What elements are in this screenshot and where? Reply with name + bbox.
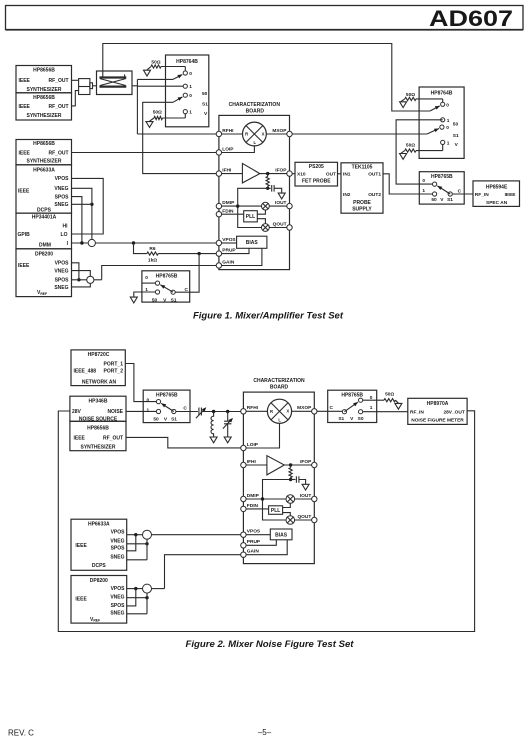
svg-text:R: R [270,409,273,414]
node VNEG-SNEG junction [90,203,93,206]
svg-text:LOIP: LOIP [247,442,259,448]
svg-text:HP8765B: HP8765B [156,273,178,279]
common fig2 right [330,405,347,414]
combiner transformer winding top [99,74,126,77]
wire to IOUT fig2 [295,498,312,500]
svg-text:50Ω: 50Ω [153,110,162,116]
svg-text:50Ω: 50Ω [151,59,160,65]
instrument DP8200 voltage reference box 1 [16,249,72,297]
svg-text:Figure 2. Mixer Noise Figure: Figure 2. Mixer Noise Figure Test Set [186,639,355,649]
wire MXOP line to switch [292,133,427,135]
svg-text:V: V [455,142,459,148]
contact 1 pole B [183,84,192,90]
svg-text:MXOP: MXOP [297,405,312,411]
svg-text:BIAS: BIAS [275,532,288,538]
svg-text:0: 0 [446,125,449,131]
wire to IOUT [269,205,287,207]
svg-text:IEEE: IEEE [18,263,30,269]
svg-text:RFHI: RFHI [247,405,259,411]
svg-text:IEEE_488: IEEE_488 [74,368,97,374]
switch HP8765B figure1 box [142,271,190,302]
node IFOP junction fig2 [289,463,292,466]
wire DP8200 VNEG [127,597,147,599]
contact 1 fig2 left [147,407,161,413]
instrument HP8594E spectrum analyzer box [473,181,520,207]
wire FDIN to PLL [222,213,244,215]
contact 1 bottom right [441,140,450,146]
svg-text:FDIN: FDIN [222,208,234,214]
svg-text:50: 50 [431,197,437,203]
labels 50 S1 V right switch [453,122,459,149]
svg-text:HP8765B: HP8765B [156,393,178,399]
contact 0 fig2 right [359,395,373,402]
wire DP8200 VPOS to GAIN [127,588,165,590]
ground for top-left 50Ω [144,70,151,76]
svg-text:X10: X10 [297,172,306,178]
svg-text:0: 0 [145,275,148,281]
instrument HP6633A DCPS box [16,165,72,214]
wire amp out to IFOP fig2 [284,464,311,466]
svg-text:HP6633A: HP6633A [88,521,110,527]
svg-text:1: 1 [422,188,425,194]
resistor 50Ω bottom left [150,110,186,122]
mixer I demodulator fig2 [286,495,295,504]
svg-text:–5–: –5– [258,728,272,737]
labels 50 V S1 spec switch [431,197,453,203]
svg-text:SUPPLY: SUPPLY [352,206,372,212]
wire synth2 RF_OUT to combiner input [72,91,79,106]
board2 left pins [241,405,261,557]
mixer U2 [267,399,291,423]
svg-text:IN1: IN1 [343,172,351,178]
meter circle on SPOS line [87,276,94,283]
instrument HP8656B synthesizer 2 box [16,93,72,120]
arm spec switch [437,186,450,194]
svg-text:1: 1 [189,84,192,90]
svg-text:50: 50 [453,122,459,128]
wire GAIN riser fig2 [165,555,241,589]
svg-text:VPOS: VPOS [111,530,126,536]
svg-text:C: C [185,287,189,293]
wire contact1 to noise figure meter [363,411,408,413]
svg-text:1: 1 [447,140,450,146]
node below resistor [266,187,269,190]
footer revision [8,729,34,738]
switch HP8764B left box [166,55,209,127]
svg-text:HP6633A: HP6633A [33,168,55,174]
wire NOISE to contact1 [126,410,156,412]
wire synth3 RF_OUT to LOIP [72,152,219,154]
svg-text:X: X [286,409,289,414]
caption figure 2 [186,639,355,649]
wire amp out to IFOP [260,173,287,175]
svg-text:HP8764B: HP8764B [176,59,198,65]
wire DMIP line fig2 [246,498,286,500]
svg-text:VREF: VREF [90,617,100,623]
svg-text:VPOS: VPOS [222,237,236,243]
svg-text:DMIP: DMIP [222,200,235,206]
footer page number [258,728,272,737]
instrument DP8200 box fig2 [71,576,127,624]
variable capacitor series [196,407,206,418]
svg-text:SPEC AN: SPEC AN [486,200,508,206]
svg-text:BIAS: BIAS [246,240,259,246]
svg-text:PORT_1: PORT_1 [104,361,124,367]
svg-text:HP8656B: HP8656B [33,141,55,147]
wire DP8200 SNEG [127,613,147,615]
svg-text:FET PROBE: FET PROBE [302,178,331,184]
svg-text:VNEG: VNEG [110,595,124,601]
wire RFHI line [137,133,219,135]
ground for bottom-left 50Ω [146,122,153,128]
wire R6 to PRUP [158,253,219,255]
wire PORT_1 to switch contact0 [125,364,156,402]
wire DCPS vertical to meter [146,539,148,560]
svg-text:PORT_2: PORT_2 [104,368,124,374]
common spec switch [448,189,462,197]
wire plug to combiner [93,85,97,87]
svg-text:0: 0 [189,93,192,99]
svg-text:S1: S1 [447,197,453,203]
wire DCPS SNEG [127,559,147,561]
svg-text:IEEE: IEEE [74,435,86,441]
wire DCPS SPOS up [127,535,136,551]
caption figure 1 [193,311,344,321]
svg-text:NOISE: NOISE [107,409,123,415]
wire mixer to MXOP fig2 [292,410,312,412]
svg-text:SYNTHESIZER: SYNTHESIZER [26,158,61,164]
instrument HP8720C network analyzer box [71,350,125,386]
node VPOS-SPOS fig2 [134,533,137,536]
wire SPOS riser to GAIN line [102,266,219,280]
capacitor C1 [268,185,282,193]
labels 50 V S1 fig2 left [153,416,177,422]
switch HP8765B right box fig1 [419,172,464,204]
svg-text:0: 0 [147,397,150,403]
wire pole A pivot [137,78,173,80]
svg-text:GAIN: GAIN [247,549,260,555]
svg-text:LOIP: LOIP [222,146,234,152]
contact 0 right pole A [441,102,450,108]
svg-text:SYNTHESIZER: SYNTHESIZER [26,87,61,93]
wire DCPS VPOS to DMM LO [72,178,104,234]
arm fig2 right [344,402,358,412]
characterization board 1 outline [219,102,290,269]
meter circle DP8200 fig2 [143,584,152,593]
meter circle on I line [88,239,95,246]
svg-text:QOUT: QOUT [273,221,287,227]
wire PLL to Q mixer fig2 [283,513,291,516]
svg-text:VNEG: VNEG [54,186,68,192]
svg-text:VPOS: VPOS [111,586,126,592]
svg-text:S1: S1 [338,416,344,422]
svg-text:IOUT: IOUT [275,200,287,206]
wire pole B pivot and riser to IFHI [143,102,219,173]
capacitor C2 [291,476,306,484]
wire LOIP to mixer L fig2 [246,423,279,448]
wire to RFHI fig2 [201,411,240,413]
node DMIP junction [236,204,239,207]
wire to QOUT [269,227,287,229]
svg-text:L: L [278,418,281,423]
svg-text:IEEE: IEEE [18,189,30,195]
contact 0 pole A [183,71,192,77]
svg-text:50: 50 [202,91,208,97]
svg-text:HP8720C: HP8720C [88,352,110,358]
wire MXOP to switch fig2 [317,410,342,412]
ground for capacitor [278,193,285,199]
svg-text:SYNTHESIZER: SYNTHESIZER [26,113,61,119]
contact 1 right [441,118,450,124]
svg-text:PRUP: PRUP [222,248,236,254]
node R6 branch on I line [132,241,135,244]
wire FDIN to PLL fig2 [246,508,269,510]
svg-text:DMIP: DMIP [247,493,260,499]
svg-text:C: C [330,405,334,411]
wire common to spectrum analyzer [452,193,473,195]
switch common contact [171,287,189,294]
svg-text:HP8764B: HP8764B [431,91,453,97]
svg-text:CHARACTERIZATION: CHARACTERIZATION [229,102,281,108]
wire DP8200 VPOS to SPOS line [72,263,79,280]
wire PLL to I mixer [257,210,265,214]
svg-text:VNEG: VNEG [54,269,68,275]
svg-text:FDIN: FDIN [247,503,259,509]
combiner transformer cross [100,79,126,86]
svg-text:V: V [204,111,208,117]
svg-text:S0: S0 [358,416,364,422]
svg-text:HP346B: HP346B [89,399,108,405]
svg-text:28V_OUT: 28V_OUT [443,409,464,415]
svg-text:DMM: DMM [39,242,51,248]
svg-text:SNEG: SNEG [54,202,68,208]
op-amp IF amplifier 1 [242,163,259,183]
svg-text:50Ω: 50Ω [406,92,415,98]
svg-text:REV. C: REV. C [8,729,34,738]
instrument HP346B noise source box [70,396,126,422]
svg-text:TEK1105: TEK1105 [352,165,373,171]
BIAS box 2 [270,529,292,540]
wire probe to TEK1105 [338,173,342,175]
svg-text:IEEE: IEEE [19,150,31,156]
svg-text:1: 1 [447,118,450,124]
ground bottom right [400,154,407,160]
svg-text:SYNTHESIZER: SYNTHESIZER [80,445,115,451]
node VNEG-SNEG fig2 [145,542,148,545]
wire LOIP to mixer L [222,146,255,153]
resistor at IFOP fig2 [289,465,292,480]
variable capacitor shunt [223,412,233,437]
svg-text:PLL: PLL [271,508,280,514]
svg-text:RF_IN: RF_IN [475,192,489,198]
resistor at IFOP [266,174,269,189]
svg-text:RF_IN: RF_IN [410,409,424,415]
ground for capacitor fig2 [302,484,309,490]
wire IFHI into board [222,173,242,175]
svg-text:PS205: PS205 [309,164,324,170]
power combiner box [97,71,133,95]
wire PRUP to BIAS [222,248,249,253]
svg-text:VREF: VREF [37,290,47,296]
switch arm [160,285,173,292]
node VNEG-SNEG DP8200 fig2 [145,596,148,599]
svg-text:HP8594E: HP8594E [486,184,508,190]
svg-text:I: I [67,241,69,247]
svg-text:V: V [440,197,444,203]
resistor 50Ω top right [401,92,443,102]
svg-text:RF_OUT: RF_OUT [49,104,69,110]
wire DCPS VPOS to board VPOS [127,534,241,536]
svg-text:1: 1 [145,287,148,293]
svg-text:SPOS: SPOS [111,546,126,552]
wire IFOP to FET probe [292,173,295,175]
node DP8200 VPOS-SPOS junction [77,278,80,281]
instrument HP8970A noise figure meter box [408,398,467,424]
wire DP8200 SPOS up [127,589,136,606]
wire common to matching network [176,411,198,413]
svg-text:V: V [350,416,354,422]
wire VPOS to BIAS fig2 [246,534,270,536]
title AD607 [429,6,513,31]
switch arm right pole B [427,128,439,134]
wire feedback branch fig2 [263,480,291,521]
wire synth1 RF_OUT to combiner input [72,79,79,81]
node IFOP junction [266,172,269,175]
wire DMM I line [72,242,219,244]
wire GAIN to BIAS [222,248,262,265]
svg-text:L: L [254,140,257,145]
contact 0 fig2 left [147,397,161,403]
labels S1 V S0 fig2 right [338,416,363,422]
mixer Q demodulator fig2 [286,516,295,525]
svg-text:QOUT: QOUT [297,514,311,520]
wire DP8200 SNEG to meter bottom [72,284,91,287]
wire junction down to switch common [175,254,199,293]
svg-text:PLL: PLL [246,214,255,220]
svg-text:HP8765B: HP8765B [431,174,453,180]
node switch feed junction [197,252,200,255]
svg-text:IEEE: IEEE [505,192,517,198]
instrument TEK1105 probe supply box [341,163,383,213]
svg-text:SPOS: SPOS [55,278,70,284]
wire RF_OUT to LOIP fig2 [126,437,241,448]
instrument HP34401A DMM box [16,213,72,249]
svg-text:DP8200: DP8200 [35,252,53,258]
resistor 50Ω top left [147,59,185,70]
wire PRUP to BIAS fig2 [246,540,276,546]
wire DCPS VNEG [127,543,147,545]
svg-text:NOISE FIGURE METER: NOISE FIGURE METER [411,418,464,424]
contact 1 bottom [183,110,192,116]
svg-text:HP8656B: HP8656B [33,95,55,101]
svg-text:SNEG: SNEG [54,285,68,291]
combiner transformer winding bottom [99,85,126,87]
svg-text:BOARD: BOARD [246,109,265,115]
svg-text:MXOP: MXOP [272,128,287,134]
wire OUT1 to HP8765B right [383,174,432,194]
wire DP8200 SPOS line [72,279,102,281]
label 50 S1 V left switch [202,91,208,117]
svg-text:R: R [245,132,248,137]
svg-text:R6: R6 [149,246,155,252]
switch arm right pole A [430,106,440,111]
svg-text:0: 0 [189,71,192,77]
svg-text:IEEE: IEEE [19,104,31,110]
svg-text:CHARACTERIZATION: CHARACTERIZATION [253,378,305,384]
svg-text:IFHI: IFHI [222,168,232,174]
wire PLL to Q mixer [257,219,265,224]
wire to QOUT fig2 [295,519,312,521]
mixer Q demodulator [262,224,270,232]
svg-text:SNEG: SNEG [110,555,124,561]
node SPOS on I line [80,241,83,244]
svg-text:DCPS: DCPS [92,563,107,569]
instrument HP8656B synthesizer 3 box [16,140,72,165]
svg-text:HP8970A: HP8970A [427,401,449,407]
svg-text:BOARD: BOARD [270,385,289,391]
node matching 1 [212,410,215,413]
inductor to ground [211,412,214,437]
ground for shunt capacitor [224,437,231,443]
wire DMIP line [222,205,262,207]
meter circle DCPS fig2 [143,530,152,539]
switch HP8765B fig2 left box [143,390,190,423]
instrument HP8656B synthesizer box fig2 [70,421,126,450]
svg-text:HI: HI [63,224,69,230]
svg-text:OUT: OUT [326,172,336,178]
svg-text:X: X [262,132,265,137]
contact 0 spec switch [422,178,436,186]
svg-text:RF_OUT: RF_OUT [49,150,69,156]
instrument PS205 FET probe box [295,162,338,186]
svg-text:HP34401A: HP34401A [32,215,57,221]
arm fig2 left [161,403,174,411]
svg-text:IFHI: IFHI [247,459,257,465]
resistor R6 1kΩ [147,246,158,263]
wire contact0 to 50Ω [363,399,384,401]
svg-text:1: 1 [189,110,192,116]
svg-text:S1: S1 [453,133,459,139]
header rule box [6,6,524,30]
node DMIP junction fig2 [261,497,264,500]
wire RFHI to mixer fig2 [246,410,267,412]
wire DCPS SNEG [72,203,92,205]
svg-text:S1: S1 [171,297,177,303]
node matching 2 [226,410,229,413]
wire DP8200 VNEG to meter top [72,271,91,276]
svg-text:LO: LO [61,232,68,238]
board1 right pins [272,128,292,230]
svg-text:IOUT: IOUT [300,493,312,499]
wire IFHI fig2 [246,464,267,466]
svg-text:IEEE: IEEE [19,78,31,84]
switch HP8765B fig2 right box [328,390,377,422]
svg-text:VPOS: VPOS [55,176,70,182]
svg-text:28V: 28V [72,409,82,415]
svg-text:0: 0 [446,102,449,108]
wire GAIN to BIAS fig2 [246,540,287,555]
combiner input plug [79,79,93,95]
ground below switch [130,297,137,303]
svg-text:DP8200: DP8200 [90,578,108,584]
svg-text:NETWORK AN: NETWORK AN [82,379,117,385]
instrument HP8656B synthesizer 1 box [16,66,72,93]
characterization board 2 outline [243,378,314,563]
svg-text:IFOP: IFOP [275,168,287,174]
svg-text:VPOS: VPOS [247,529,261,535]
labels 50 V S1 [152,297,177,303]
resistor 50Ω fig2 [384,391,398,403]
